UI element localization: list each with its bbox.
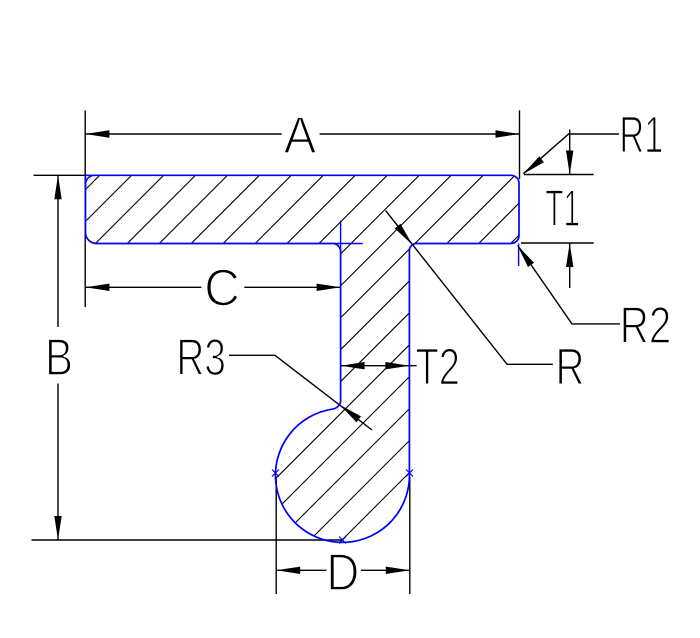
dim D extension line left xyxy=(275,477,277,595)
leader R xyxy=(386,211,553,365)
leader R3 xyxy=(229,355,372,430)
dim T1 arrow shaft top xyxy=(569,130,571,175)
dim B extension line bottom xyxy=(32,539,344,541)
arrow B top xyxy=(54,175,61,199)
hatch section lines xyxy=(0,150,700,560)
svg-text:R3: R3 xyxy=(176,329,226,387)
arrow A right xyxy=(496,130,520,137)
sketch point circle left quadrant xyxy=(272,470,279,477)
svg-text:A: A xyxy=(284,107,317,165)
dim A extension line left xyxy=(84,111,86,308)
arrow R xyxy=(395,224,413,245)
sketch overshoot flange bottom at stem xyxy=(333,243,363,245)
dim T2 dimension line xyxy=(341,365,417,367)
dim T1 arrow shaft bottom xyxy=(569,243,571,288)
dim A dimension line xyxy=(85,133,281,135)
sketch point circle bottom xyxy=(339,537,346,544)
arrow R3 xyxy=(340,405,361,423)
arrow C left xyxy=(85,284,109,291)
dim A extension line right xyxy=(519,110,521,179)
arrow R2 xyxy=(517,245,534,267)
arrow T2 right xyxy=(385,362,409,369)
arrow D left xyxy=(276,567,300,574)
dim B extension line top xyxy=(34,174,90,176)
dim T1 extension line top xyxy=(524,174,594,176)
svg-text:T1: T1 xyxy=(545,180,580,238)
svg-text:C: C xyxy=(204,260,240,318)
leader R1 xyxy=(523,134,619,174)
arrow T1 bottom xyxy=(566,243,573,267)
svg-text:B: B xyxy=(45,329,73,387)
dim D dimension line xyxy=(276,569,326,571)
profile outline xyxy=(86,175,520,542)
svg-text:D: D xyxy=(326,544,359,602)
arrow B bottom xyxy=(54,516,61,540)
arrow C right xyxy=(317,284,341,291)
dim C dimension line xyxy=(85,286,201,288)
svg-text:T2: T2 xyxy=(416,339,460,397)
arrow R1 xyxy=(523,156,544,174)
sketch overshoot flange right edge below corner xyxy=(518,244,520,267)
arrow A left xyxy=(85,130,109,137)
leader R2 xyxy=(518,245,620,324)
sketch point circle right quadrant xyxy=(406,470,413,477)
svg-text:R1: R1 xyxy=(619,106,663,164)
svg-text:R2: R2 xyxy=(620,297,672,355)
dim T1 extension line bottom xyxy=(521,242,594,244)
dim B dimension line xyxy=(57,175,59,327)
svg-text:R: R xyxy=(556,339,585,397)
sketch sharp corner top-left xyxy=(86,175,98,186)
dim D extension line right xyxy=(409,477,411,595)
arrow T2 left xyxy=(341,362,365,369)
sketch overshoot stem left edge xyxy=(340,221,342,252)
arrow T1 top xyxy=(566,151,573,175)
arrow D right xyxy=(386,567,410,574)
